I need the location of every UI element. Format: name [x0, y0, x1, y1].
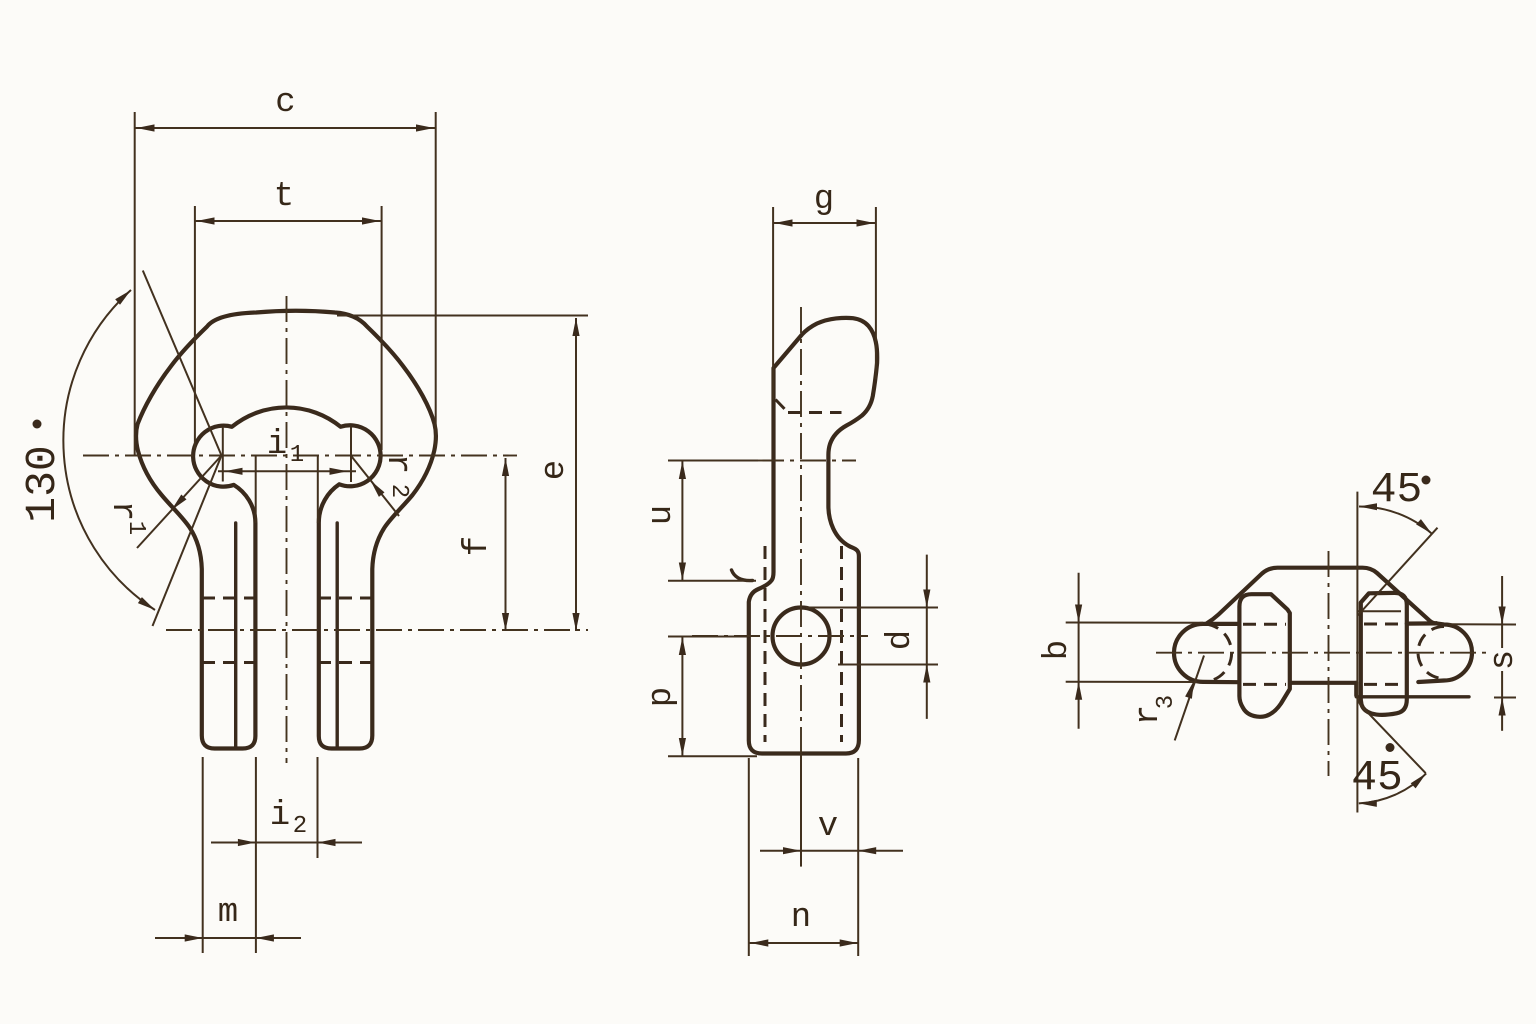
- slot edge extensions up: [255, 455, 257, 523]
- svg-text:i: i: [270, 797, 290, 835]
- bottom right step and lower edge: [1356, 683, 1469, 697]
- inner leg edge lines: [236, 523, 338, 747]
- vertical centerline: [800, 307, 802, 795]
- dimension m: [155, 757, 301, 953]
- 45 deg extension vertical line: [1356, 492, 1358, 813]
- outline of clevis front view: [136, 311, 436, 749]
- dimension 130 degrees: [18, 271, 222, 627]
- dimension t: [195, 178, 382, 450]
- dimension e: [536, 318, 580, 631]
- strip bottom edge center portion: [1290, 681, 1356, 685]
- svg-text:v: v: [818, 808, 838, 846]
- throat level centerline: [758, 460, 856, 462]
- svg-text:r: r: [103, 501, 141, 521]
- strip top edge hidden behind pads: [1243, 623, 1286, 626]
- svg-text:n: n: [791, 899, 811, 937]
- svg-text:2: 2: [385, 484, 412, 498]
- svg-text:r: r: [378, 454, 416, 474]
- dimension g: [773, 181, 876, 400]
- svg-text:c: c: [275, 84, 295, 122]
- dimension c: [135, 84, 436, 456]
- svg-text:g: g: [814, 181, 834, 219]
- svg-text:1: 1: [290, 442, 304, 469]
- dimension s: [1449, 576, 1523, 731]
- svg-text:2: 2: [293, 813, 307, 840]
- cap center tick left: [222, 427, 224, 482]
- svg-text:t: t: [274, 178, 294, 216]
- dimension d: [806, 555, 938, 719]
- horizontal centerline: [1156, 652, 1487, 654]
- dimension b: [1039, 573, 1203, 729]
- svg-text:p: p: [643, 687, 681, 707]
- leg pin hole centerline: [166, 629, 588, 631]
- svg-text:3: 3: [1153, 695, 1180, 709]
- svg-text:e: e: [536, 460, 574, 480]
- hole horizontal centerline: [692, 635, 868, 637]
- dimension i2: [211, 757, 362, 953]
- hidden slot edges (dashed): [765, 546, 842, 742]
- hidden undercut below hook (dashed): [776, 400, 842, 413]
- right leg pad: [1361, 593, 1407, 715]
- right cap visible arc: [1418, 623, 1472, 682]
- svg-text:i: i: [267, 426, 287, 464]
- strip top edge right of right pad: [1407, 621, 1437, 625]
- strip bottom edge hidden behind pads: [1243, 683, 1286, 686]
- radius leader r2: [351, 454, 416, 516]
- cap center tick right: [350, 427, 352, 482]
- dimension i1: [218, 426, 356, 475]
- top edge extension line: [337, 315, 588, 317]
- svg-text:f: f: [459, 536, 497, 556]
- hidden pin hole in legs (dashed): [202, 598, 372, 663]
- dimension v: [760, 754, 903, 957]
- radius leader r1: [103, 456, 222, 549]
- outline of side view: [749, 318, 877, 754]
- svg-text:45: 45: [1351, 753, 1403, 802]
- svg-text:d: d: [882, 630, 920, 650]
- small fillet squiggle at shank-block transition: [732, 570, 753, 581]
- svg-text:130: 130: [18, 445, 67, 522]
- svg-text:1: 1: [122, 521, 149, 535]
- left cap hidden arc (dashed): [1206, 624, 1232, 682]
- vertical centerline: [286, 296, 288, 763]
- left cap visible arc: [1174, 624, 1239, 682]
- hole horizontal centerline: [83, 455, 517, 457]
- right cap hidden arc (dashed): [1418, 627, 1444, 679]
- svg-text:s: s: [1485, 650, 1523, 670]
- radius leader r3: [1130, 656, 1204, 741]
- svg-text:b: b: [1039, 640, 1077, 660]
- dimension f: [459, 458, 509, 631]
- dimension n: [749, 758, 858, 956]
- dimension p: [643, 637, 757, 757]
- svg-text:45: 45: [1371, 465, 1423, 514]
- central body with 45 deg chamfers: [1207, 568, 1437, 624]
- dimension 45 bottom: [1351, 698, 1426, 807]
- pin hole circle: [773, 608, 830, 665]
- left leg pad: [1239, 594, 1289, 717]
- svg-text:u: u: [643, 505, 681, 525]
- dimension 45 top: [1358, 465, 1438, 616]
- chamfer projection line on right pad: [1357, 610, 1401, 612]
- vertical centerline: [1328, 551, 1330, 776]
- dimension u: [643, 461, 758, 581]
- svg-text:m: m: [218, 894, 238, 932]
